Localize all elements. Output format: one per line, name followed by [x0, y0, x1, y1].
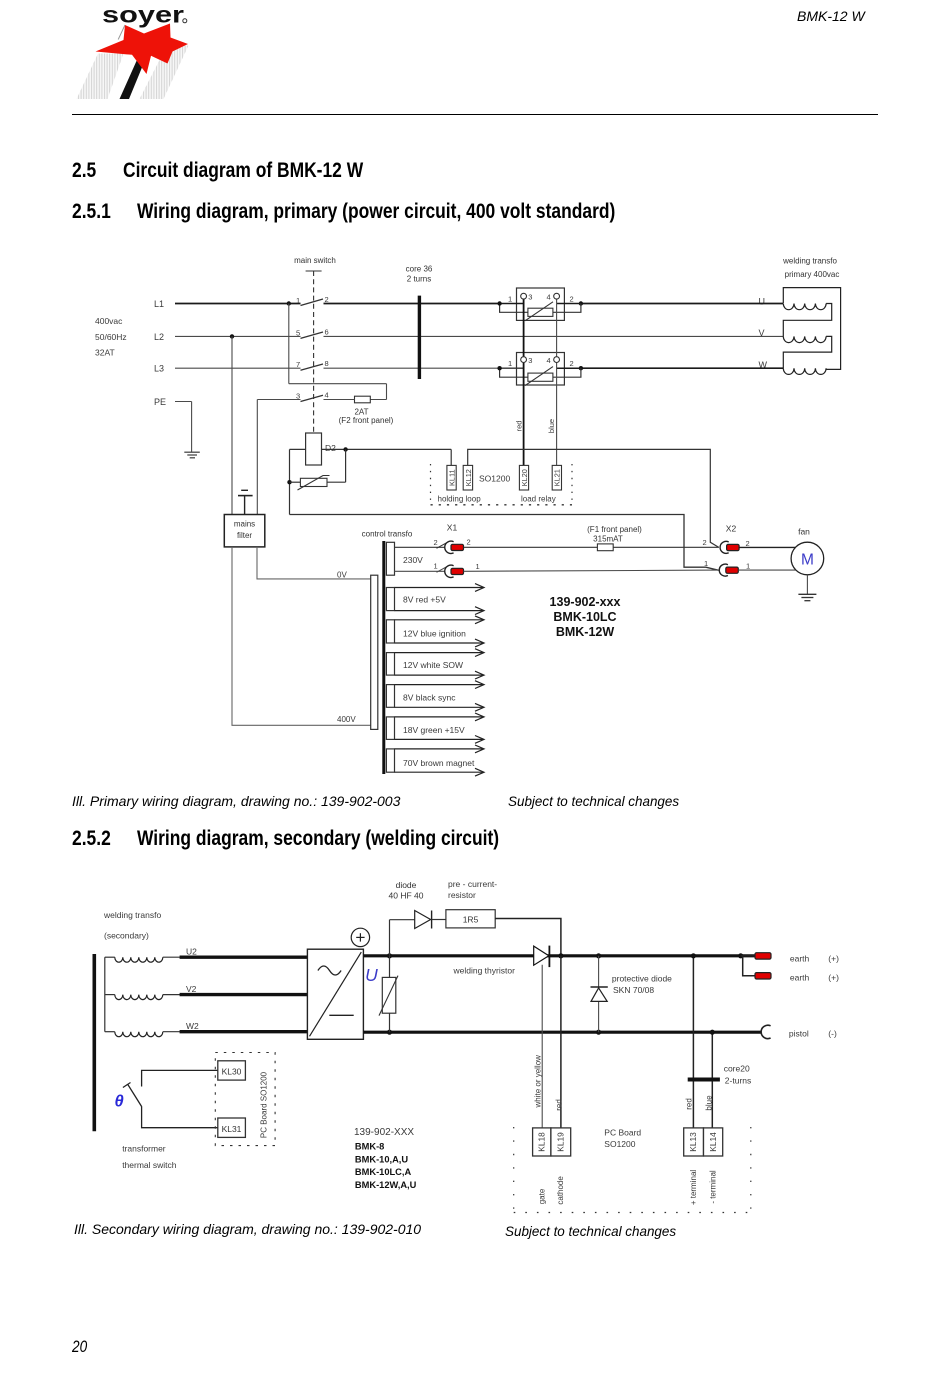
switch S1 contact 5-6 blade	[301, 332, 324, 338]
svg-text:KL14: KL14	[708, 1132, 718, 1152]
load relay K1 box	[517, 288, 565, 320]
winding U step link	[783, 304, 831, 337]
wire 1R5 right and down to bus	[495, 919, 561, 956]
heading 2.5.1	[72, 201, 111, 222]
wire 2AT drop from L1 junction	[288, 304, 290, 384]
svg-text:BMK-10LC: BMK-10LC	[553, 610, 616, 624]
svg-text:1: 1	[296, 296, 300, 305]
mains filter box	[224, 515, 264, 547]
svg-text:core 36: core 36	[406, 265, 433, 274]
wire W from load relay K2 to transformer	[581, 367, 783, 369]
svg-text:protective diode: protective diode	[612, 974, 672, 984]
svg-text:400V: 400V	[337, 715, 356, 724]
junction dot gate feed on positive bus	[558, 953, 563, 958]
welding transformer primary outline	[783, 288, 840, 370]
terminal KL31 box	[218, 1118, 246, 1137]
red gate wire down to KL19	[560, 956, 562, 1128]
junction dot on L2 at mains filter drop	[230, 334, 234, 338]
output arrow top 12V blue ignition	[395, 619, 484, 621]
svg-text:primary 400vac: primary 400vac	[785, 270, 840, 279]
svg-text:(-): (-)	[828, 1029, 837, 1039]
svg-text:BMK-12W,A,U: BMK-12W,A,U	[355, 1180, 417, 1190]
wire X2 pin 2 to fan	[739, 546, 796, 548]
svg-text:welding transfo: welding transfo	[782, 257, 837, 266]
output arrow bottom 8V red +5V	[395, 610, 484, 612]
junction dot protective diode bottom	[596, 1030, 601, 1035]
output arrow bottom 8V black sync	[395, 706, 484, 708]
output arrow top 18V green +15V	[395, 716, 484, 718]
junction dot varistor left	[287, 480, 291, 484]
core20 ferrite bar	[688, 1078, 720, 1082]
logo black stroke	[120, 57, 147, 100]
negative bus thick wire	[363, 1031, 761, 1034]
control transformer core bar	[382, 541, 385, 774]
star point wire U2 V2 W2	[104, 957, 106, 1031]
wire F1 to X2 pin 2	[613, 546, 719, 548]
red control wire from relay K1 terminal 3 to KL20	[523, 296, 525, 465]
svg-text:(F1 front panel): (F1 front panel)	[587, 525, 642, 534]
winding W welding transformer	[783, 368, 826, 374]
svg-text:1: 1	[508, 359, 512, 368]
wire from KL12 up and right to X2	[468, 449, 719, 547]
wire from contact 3 to mains filter	[257, 399, 300, 401]
ground fan earth symbol	[798, 593, 816, 595]
svg-text:L2: L2	[154, 332, 164, 342]
wire L1 left segment	[175, 303, 301, 305]
control transformer secondary winding 12V SOW box	[386, 653, 394, 676]
output arrow bottom 12V blue ignition	[395, 642, 484, 644]
svg-text:1: 1	[476, 562, 480, 571]
terminal KL13 box	[684, 1128, 704, 1156]
svg-text:fan: fan	[798, 527, 810, 537]
svg-text:PE: PE	[154, 397, 166, 407]
svg-text:2: 2	[570, 295, 574, 304]
header model name	[797, 9, 865, 23]
rectifier diagonal	[310, 952, 362, 1036]
terminal KL19 box	[551, 1128, 571, 1156]
load relay K2 bypass jog	[500, 368, 528, 377]
thyristor gate wire white or yellow	[541, 965, 543, 1128]
svg-text:(secondary): (secondary)	[104, 931, 149, 941]
thermal switch blade	[128, 1084, 142, 1107]
output arrow top 70V brown magnet	[395, 748, 484, 750]
svg-text:gate: gate	[538, 1188, 547, 1204]
load relay K1 internal wires	[500, 303, 524, 305]
svg-text:139-902-xxx: 139-902-xxx	[550, 595, 621, 609]
load relay K1 bypass jog	[500, 304, 528, 313]
terminal KL21 box	[552, 465, 561, 490]
wire across to fuse branch	[289, 383, 387, 385]
rectifier sine symbol	[318, 966, 341, 975]
svg-text:7: 7	[296, 360, 300, 369]
terminal KL11 box	[447, 465, 456, 490]
connector X2 pin 2 socket	[720, 541, 729, 553]
svg-text:main switch: main switch	[294, 256, 336, 265]
svg-text:2: 2	[434, 538, 438, 547]
junction dot relay K2 left	[497, 366, 501, 370]
svg-text:40 HF 40: 40 HF 40	[389, 891, 424, 901]
terminal KL30 box	[218, 1061, 246, 1080]
terminal KL20 box	[519, 465, 528, 490]
wire V2 to rectifier thick	[163, 994, 180, 996]
svg-text:PC Board SO1200: PC Board SO1200	[260, 1071, 269, 1138]
svg-text:3: 3	[528, 293, 532, 302]
varistor U branch	[389, 956, 391, 978]
wire mains filter to 400V	[232, 547, 371, 725]
svg-text:mains: mains	[234, 520, 255, 529]
fuse 2AT	[355, 396, 371, 403]
output arrow bottom 70V brown magnet	[395, 771, 484, 773]
svg-text:1: 1	[434, 562, 438, 571]
svg-text:18V green +15V: 18V green +15V	[403, 725, 465, 735]
svg-text:315mAT: 315mAT	[593, 535, 623, 544]
main switch mechanical dashed link	[313, 271, 315, 433]
varistor R2	[290, 481, 301, 483]
wire L2 left segment	[175, 335, 301, 337]
wire L3 right segment to load relay	[324, 367, 500, 369]
svg-text:filter: filter	[237, 531, 252, 540]
svg-text:KL11: KL11	[447, 469, 456, 486]
caption secondary diagram	[74, 1222, 421, 1236]
output arrow top 12V white SOW	[395, 652, 484, 654]
diode D1 40HF40	[415, 911, 431, 929]
wire to earth terminal 2	[743, 956, 755, 976]
relay K2 terminal 3 circle	[521, 357, 527, 363]
svg-text:core20: core20	[724, 1064, 750, 1074]
svg-text:diode: diode	[396, 880, 417, 890]
svg-text:8V red +5V: 8V red +5V	[403, 595, 446, 605]
svg-text:pistol: pistol	[789, 1029, 809, 1039]
rectifier B1 box	[307, 949, 363, 1039]
output arrow top 8V black sync	[395, 684, 484, 686]
control transformer secondary winding 18V +15V box	[386, 717, 394, 740]
svg-text:BMK-8: BMK-8	[355, 1142, 384, 1152]
output arrow top 8V red +5V	[395, 587, 484, 589]
wire positive bus up to diode	[389, 920, 391, 956]
svg-text:BMK-10,A,U: BMK-10,A,U	[355, 1155, 408, 1165]
wire varistor branch left leg	[289, 449, 291, 514]
junction dot KL13 branch	[691, 953, 696, 958]
svg-text:5: 5	[296, 329, 300, 338]
svg-text:L1: L1	[154, 299, 164, 309]
svg-text:6: 6	[325, 328, 329, 337]
svg-text:2-turns: 2-turns	[725, 1076, 751, 1086]
wire 230V bottom to X1 pin 1	[395, 570, 446, 572]
svg-text:KL31: KL31	[222, 1124, 242, 1134]
relay coil D2 box	[306, 433, 322, 465]
wire W2 to rectifier thick	[163, 1031, 180, 1033]
wire U from load relay K1 to transformer	[581, 303, 783, 305]
svg-text:earth: earth	[790, 954, 810, 964]
svg-text:θ: θ	[115, 1093, 124, 1111]
wire fan to ground	[806, 575, 808, 594]
svg-text:230V: 230V	[403, 555, 423, 565]
svg-text:U: U	[365, 965, 378, 985]
svg-text:(F2 front panel): (F2 front panel)	[339, 416, 394, 425]
svg-text:2: 2	[746, 539, 750, 548]
control transformer secondary winding 70V magnet box	[386, 749, 394, 772]
junction dot earth branch	[738, 953, 743, 958]
fuse F1 315mAT	[597, 544, 613, 551]
svg-text:blue: blue	[547, 419, 556, 433]
junction dot U after relay K1	[579, 301, 583, 305]
logo gray parallelogram left	[77, 54, 124, 100]
heading 2.5.2	[72, 828, 111, 849]
svg-text:U2: U2	[186, 947, 197, 957]
welding transformer secondary core bar	[93, 954, 97, 1131]
relay K1 terminal 3 circle	[521, 293, 527, 299]
svg-text:earth: earth	[790, 973, 810, 983]
svg-text:transformer: transformer	[122, 1144, 166, 1154]
svg-text:pre - current-: pre - current-	[448, 879, 497, 889]
control transformer secondary winding 12V ignition box	[386, 620, 394, 643]
wire from D2 to KL11	[322, 448, 452, 450]
relay K2 box	[517, 353, 565, 386]
relay K1 terminal 4 circle	[554, 293, 560, 299]
svg-text:D2: D2	[325, 443, 336, 453]
terminal KL18 box	[533, 1128, 551, 1156]
svg-text:KL12: KL12	[464, 469, 473, 486]
earth terminal 2 red lug	[755, 973, 771, 979]
wire X2 pin 1 to fan	[738, 569, 795, 571]
svg-text:70V brown magnet: 70V brown magnet	[403, 758, 475, 768]
svg-text:1: 1	[746, 562, 750, 571]
positive bus thick wire	[363, 954, 755, 957]
svg-text:X1: X1	[447, 523, 458, 533]
soyer logo	[0, 0, 260, 110]
connector X2 pin 1 socket	[719, 564, 728, 576]
wire thermal switch top to KL30	[142, 1070, 218, 1086]
terminal KL12 box	[463, 465, 472, 490]
winding V step link	[783, 336, 831, 368]
svg-text:139-902-XXX: 139-902-XXX	[354, 1127, 414, 1138]
control transformer primary winding box	[371, 575, 378, 729]
svg-text:1R5: 1R5	[463, 915, 479, 925]
header rule	[72, 114, 878, 115]
rectifier plus terminal circle	[351, 928, 369, 946]
thermal switch tick	[123, 1083, 131, 1088]
logo thin diagonal	[118, 25, 125, 40]
svg-text:2: 2	[467, 538, 471, 547]
wire L1 right segment to load relay	[324, 303, 500, 305]
svg-text:1: 1	[508, 295, 512, 304]
svg-text:SKN 70/08: SKN 70/08	[613, 985, 654, 995]
fan motor M1 circle	[791, 542, 824, 575]
svg-text:W2: W2	[186, 1021, 199, 1031]
svg-text:KL13: KL13	[688, 1132, 698, 1152]
svg-text:0V: 0V	[337, 571, 347, 580]
PC board SO1200 dashed box KL30/31	[215, 1053, 275, 1146]
svg-text:V: V	[759, 328, 765, 338]
svg-text:X2: X2	[726, 524, 737, 534]
wire varistor up to D2 line	[345, 449, 347, 482]
junction dot KL14 branch	[710, 1030, 715, 1035]
svg-text:4: 4	[547, 356, 551, 365]
svg-text:8: 8	[325, 359, 329, 368]
svg-text:4: 4	[325, 391, 329, 400]
svg-text:50/60Hz: 50/60Hz	[95, 332, 127, 342]
winding U welding transformer	[783, 304, 826, 310]
wire into D2 left	[290, 448, 306, 450]
svg-text:KL19: KL19	[556, 1132, 566, 1152]
caption primary diagram	[72, 794, 400, 808]
wire U2 to rectifier thick	[163, 956, 180, 958]
svg-text:32AT: 32AT	[95, 348, 115, 358]
terminal KL14 box	[704, 1128, 723, 1156]
wire down to fuse line	[386, 384, 388, 400]
wire PE stub	[175, 401, 192, 403]
svg-text:4: 4	[547, 293, 551, 302]
ground PE earth symbol	[184, 451, 200, 453]
svg-text:welding thyristor: welding thyristor	[453, 966, 516, 976]
svg-text:2 turns: 2 turns	[407, 275, 431, 284]
svg-text:(+): (+)	[828, 954, 839, 964]
welding thyristor V1 triangle	[534, 946, 549, 965]
svg-text:thermal switch: thermal switch	[122, 1160, 177, 1170]
svg-text:(+): (+)	[828, 973, 839, 983]
svg-text:BMK-12W: BMK-12W	[556, 625, 615, 639]
wire negative bus to KL14	[711, 1032, 713, 1128]
varistor in relay K1	[528, 308, 553, 316]
svg-text:resistor: resistor	[448, 890, 476, 900]
relay K2 terminal 4 circle	[554, 357, 560, 363]
junction dot protective diode top	[596, 953, 601, 958]
svg-text:BMK-10LC,A: BMK-10LC,A	[355, 1167, 412, 1177]
wire L3 left segment	[175, 367, 301, 369]
wire L2/V segment to welding transformer	[324, 335, 784, 337]
junction dot W after relay K2	[579, 366, 583, 370]
svg-text:M: M	[801, 552, 814, 569]
wire X1 pin2 to F1 fuse	[464, 546, 598, 548]
svg-text:8V black sync: 8V black sync	[403, 692, 456, 702]
svg-text:400vac: 400vac	[95, 316, 123, 326]
winding W2	[105, 1031, 115, 1033]
junction dot relay K1 left	[497, 301, 501, 305]
logo gray parallelogram right	[140, 46, 189, 100]
switch S1 contact 1-2 blade	[301, 299, 324, 306]
svg-text:holding loop: holding loop	[438, 495, 482, 504]
svg-text:SO1200: SO1200	[604, 1139, 635, 1149]
wire L2 drop to mains filter	[231, 336, 233, 514]
connector X1 pin 1 socket	[445, 565, 454, 577]
svg-text:KL18: KL18	[537, 1132, 547, 1152]
blue control wire from relay terminal 4 to KL21	[556, 296, 558, 465]
control transformer 230V winding box	[386, 542, 394, 575]
load relay K2 internal wires	[500, 367, 524, 369]
svg-text:red: red	[685, 1098, 694, 1110]
junction dot varistor bottom on negative bus	[387, 1030, 392, 1035]
earth terminal 1 red lug	[755, 953, 771, 959]
output arrow bottom 18V green +15V	[395, 738, 484, 740]
svg-text:load relay: load relay	[521, 495, 556, 504]
protective diode branch wire	[598, 956, 600, 1032]
svg-text:red: red	[554, 1099, 563, 1111]
svg-text:PC Board: PC Board	[604, 1128, 641, 1138]
svg-text:SO1200: SO1200	[479, 474, 510, 484]
PC board dashed border	[513, 1127, 515, 1213]
mains filter chassis symbol	[241, 489, 248, 491]
logo red star	[96, 24, 189, 75]
connector X1 pin 2 socket	[445, 541, 454, 553]
resistor 1R5 box	[446, 910, 495, 928]
wire positive bus to KL13	[692, 956, 694, 1128]
heading 2.5	[72, 160, 96, 181]
svg-text:V2: V2	[186, 984, 197, 994]
protective diode SKN 70/08 symbol	[591, 986, 608, 988]
output arrow bottom 12V white SOW	[395, 674, 484, 676]
svg-text:cathode: cathode	[556, 1176, 565, 1205]
svg-text:+ terminal: + terminal	[689, 1170, 698, 1206]
svg-text:white or yellow: white or yellow	[534, 1055, 543, 1109]
svg-text:blue: blue	[705, 1095, 714, 1111]
svg-text:L3: L3	[154, 364, 164, 374]
svg-text:control transfo: control transfo	[362, 530, 413, 539]
junction dot D2 output	[343, 447, 347, 451]
svg-text:2: 2	[570, 359, 574, 368]
svg-text:12V blue ignition: 12V blue ignition	[403, 629, 466, 639]
winding V2	[105, 994, 115, 996]
wire thermal switch bottom to KL31	[142, 1106, 218, 1128]
switch S1 contact 3-4 blade	[301, 395, 324, 401]
svg-text:KL30: KL30	[222, 1067, 242, 1077]
core 36 ferrite bar	[418, 296, 421, 379]
svg-text:2: 2	[703, 538, 707, 547]
svg-text:KL20: KL20	[520, 469, 529, 486]
wire PE down to earth	[191, 402, 193, 453]
winding V welding transformer	[783, 336, 826, 342]
svg-text:red: red	[515, 421, 524, 432]
wire fuse line right part	[370, 399, 386, 401]
svg-text:welding transfo: welding transfo	[103, 910, 161, 920]
varistor in relay K2	[528, 373, 553, 381]
svg-text:1: 1	[704, 559, 708, 568]
control transformer secondary winding 8V +5V box	[386, 588, 394, 611]
switch S1 contact 7-8 blade	[301, 364, 324, 370]
wire 230V top to X1	[395, 546, 446, 548]
svg-text:- terminal: - terminal	[709, 1170, 718, 1204]
junction dot on L1 at drop to fuse 2AT	[287, 301, 291, 305]
svg-text:KL21: KL21	[553, 469, 562, 486]
welding thyristor cathode bar	[548, 946, 550, 968]
junction dot varistor top on positive bus	[387, 953, 392, 958]
main switch top tick	[306, 270, 322, 272]
pistol connector socket	[761, 1025, 770, 1038]
wire bottom return line to X2 pin 1	[290, 515, 719, 571]
control transformer secondary winding 8V sync box	[386, 685, 394, 708]
rectifier minus symbol	[329, 1014, 353, 1016]
svg-text:3: 3	[528, 356, 532, 365]
wire diode to 1R5	[432, 919, 446, 921]
svg-text:12V white SOW: 12V white SOW	[403, 660, 463, 670]
winding U2	[105, 956, 115, 958]
svg-text:U: U	[759, 297, 766, 307]
page number	[72, 1338, 87, 1355]
wire mains filter to 0V	[257, 547, 371, 579]
wire to earth terminal 1	[741, 955, 755, 957]
SO1200 dashed border	[430, 464, 432, 505]
wire X1 pin1 to X2 pin 1	[464, 570, 719, 571]
